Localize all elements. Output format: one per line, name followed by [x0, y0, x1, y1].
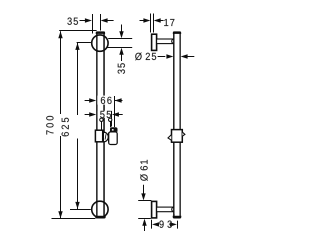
- dimension 35 vertical (right of top circle): lines: [108, 38, 132, 40]
- wire: stem under left knob: [101, 122, 103, 131]
- dimension 55 row: [85, 114, 92, 116]
- wire: bottom extension line at bar bottom (y=216.6): [52, 218, 96, 220]
- slider lever left (side): [168, 135, 171, 140]
- dimension Ø61: extension lines: [138, 200, 151, 202]
- mounting circle bottom (front): [92, 201, 108, 217]
- wire: bottom extension line at circle center (y=209.3): [70, 209, 91, 211]
- slider (side): [172, 130, 183, 143]
- wire: stem under right knob: [110, 122, 112, 128]
- label 35 vertical (rotated): [118, 63, 125, 74]
- bar front: top cap: [96, 31, 105, 34]
- slider body (front): [95, 130, 102, 142]
- label 700 (rotated): [46, 116, 53, 135]
- label 66: [101, 97, 112, 104]
- bar front: bottom cap: [95, 216, 106, 219]
- bar side: right edge: [179, 32, 181, 219]
- dimension 625 vertical line: [77, 43, 79, 115]
- bar front: right edge: [103, 32, 105, 219]
- bar side: left edge: [173, 32, 175, 219]
- bar side: top cap: [173, 31, 181, 34]
- dimension Ø61: arrows: [143, 185, 145, 194]
- bar side: bottom cap: [173, 216, 182, 219]
- wire: 55 right extension line (to holder cap left): [111, 111, 113, 127]
- node: small knob circle right above slider: [109, 118, 112, 121]
- mounting circle top (front): [92, 35, 108, 51]
- dimension 93: arrows: [152, 222, 159, 226]
- wall plate bottom (side): [152, 201, 157, 218]
- dimension 17: arrows: [140, 20, 145, 22]
- bar front: left edge: [96, 32, 98, 219]
- slider nub right (side): [182, 132, 185, 136]
- label Ø61 (rotated): [140, 160, 148, 181]
- dimension 93: extension lines: [151, 220, 153, 229]
- dimension 35 top: extension lines: [92, 14, 94, 34]
- arm top (side): [157, 39, 175, 44]
- node: small knob circle left above slider: [100, 118, 103, 121]
- dimension 17: extension lines: [150, 14, 152, 33]
- dimension 66 row: [85, 100, 92, 102]
- wire: 66 right extension line (to holder right edge): [114, 96, 116, 127]
- label 625 (rotated): [62, 118, 69, 137]
- label Ø25: [135, 53, 156, 61]
- arm bottom (side): [157, 207, 175, 212]
- label 93: [159, 221, 171, 228]
- holder cylinder (front): [109, 132, 118, 145]
- wire: top extension line at bar top (y=31): [59, 30, 96, 32]
- wall plate top (side): [152, 34, 157, 50]
- holder cap (front, dark): [110, 127, 118, 132]
- label 55: [100, 111, 111, 118]
- wire: extension line at top circle center (y=42.6): [77, 42, 91, 44]
- dimension Ø25: arrows: [158, 56, 166, 58]
- dimension 35 top: arrows: [80, 20, 87, 22]
- label 35 top: [67, 18, 78, 25]
- dimension 700 vertical line: [60, 31, 62, 114]
- slider cone dome (front): [103, 132, 108, 142]
- label 17: [164, 19, 174, 26]
